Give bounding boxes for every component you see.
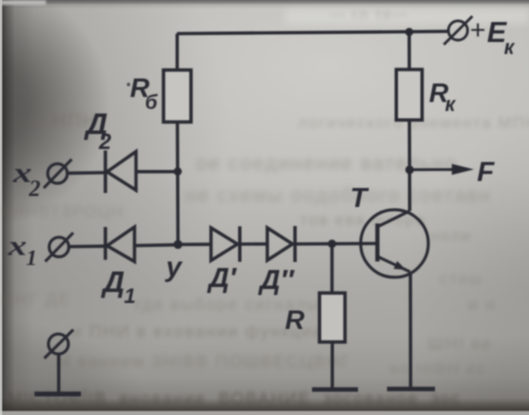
resistor Rk (396, 70, 422, 121)
wire U to D' (178, 243, 211, 246)
label u (164, 251, 183, 282)
terminal ground left (44, 330, 73, 392)
label +Ek (470, 15, 515, 59)
svg-text:к: к (504, 37, 515, 59)
label D' (207, 262, 237, 293)
svg-text:1: 1 (26, 245, 37, 270)
svg-text:2: 2 (28, 176, 41, 201)
wire x2 (67, 171, 104, 175)
wire top rail (177, 31, 449, 33)
terminal x2 (44, 159, 72, 188)
svg-text:1: 1 (124, 285, 136, 308)
node base (328, 240, 336, 248)
wire Rb bottom to node U (176, 122, 180, 245)
top light band (0, 0, 46, 5)
svg-text:x: x (7, 230, 27, 262)
label D2 (83, 108, 112, 154)
wire collector up (408, 120, 412, 211)
diode D' (211, 226, 267, 261)
label T (350, 182, 370, 213)
diode D1 (105, 227, 176, 262)
wire Rk top (408, 32, 411, 70)
wire R bottom (331, 342, 334, 388)
node U (174, 240, 183, 249)
label D'' (258, 264, 295, 295)
transistor T (361, 210, 429, 278)
svg-text:Д″: Д″ (258, 264, 295, 295)
svg-text:б: б (145, 92, 158, 114)
svg-text:F: F (477, 156, 495, 187)
svg-text:+: + (470, 15, 486, 45)
resistor Rb (164, 70, 192, 122)
svg-text:2: 2 (98, 129, 112, 154)
svg-text:R: R (285, 305, 305, 335)
arrow F (412, 164, 474, 175)
ground left (35, 392, 82, 397)
terminal x1 (45, 233, 73, 262)
resistor R (320, 293, 346, 342)
label x1 (7, 230, 37, 270)
wire Rb top (176, 34, 179, 70)
diode D2 (105, 151, 174, 194)
wire emitter down (409, 273, 413, 389)
label Rb (127, 73, 158, 114)
wire R top (330, 244, 333, 293)
wire x1 (69, 245, 105, 249)
svg-text:у: у (164, 251, 183, 282)
ground middle (312, 387, 358, 392)
svg-text:к: к (445, 94, 456, 116)
diode D'' (267, 226, 377, 262)
node x2 junction (174, 167, 182, 175)
label R (285, 305, 305, 335)
label Rk (429, 78, 456, 116)
terminal +Ek (444, 16, 473, 44)
label F (477, 156, 495, 187)
label x2 (12, 157, 41, 201)
label D1 (100, 266, 136, 308)
svg-text:T: T (350, 182, 370, 213)
node top junction (405, 28, 413, 36)
ground right (387, 387, 435, 392)
faint bleed-through text rows (330, 6, 409, 23)
svg-text:Д′: Д′ (207, 262, 237, 293)
node F (405, 166, 414, 175)
svg-text:Д: Д (100, 266, 125, 299)
